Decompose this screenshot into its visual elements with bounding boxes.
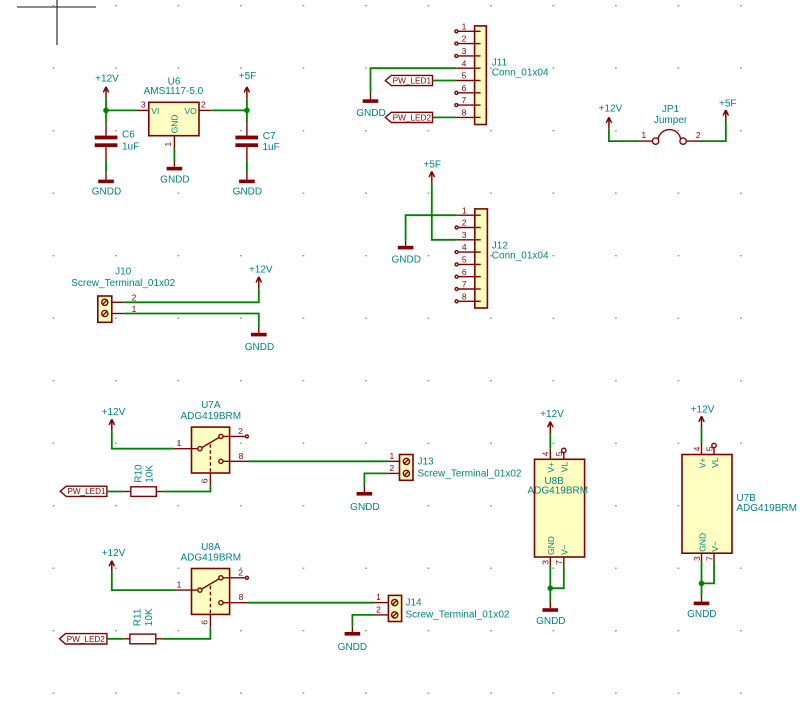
resistor R10 bbox=[123, 487, 162, 497]
svg-text:2: 2 bbox=[696, 130, 701, 140]
ground GNDD under U6 bbox=[160, 162, 189, 186]
ground GNDD under C6 bbox=[92, 173, 121, 198]
U7A value ADG419BRM bbox=[181, 411, 242, 422]
svg-text:+12V: +12V bbox=[599, 104, 623, 115]
svg-text:3: 3 bbox=[541, 560, 551, 565]
U8B pin name GND (rotated) bbox=[546, 536, 556, 555]
J12 pin 5 bbox=[455, 255, 481, 266]
wire U7B pin7 to junction bbox=[702, 561, 715, 583]
svg-text:GNDD: GNDD bbox=[233, 186, 262, 197]
svg-text:2: 2 bbox=[132, 293, 137, 303]
wire J11 pin4 to ground bbox=[371, 68, 457, 93]
svg-text:8: 8 bbox=[462, 108, 467, 118]
wire U7A pin8 to J13 bbox=[248, 460, 387, 462]
svg-text:3: 3 bbox=[462, 230, 467, 240]
svg-text:4: 4 bbox=[462, 242, 467, 252]
J11 pin 7 bbox=[455, 95, 481, 106]
J11 reference label bbox=[492, 57, 508, 68]
svg-text:8: 8 bbox=[239, 592, 244, 602]
U6 pin 3 bbox=[137, 100, 149, 111]
svg-text:1uF: 1uF bbox=[122, 141, 139, 152]
wire C6 to ground bbox=[105, 160, 107, 172]
svg-text:8: 8 bbox=[239, 451, 244, 461]
svg-text:2: 2 bbox=[462, 218, 467, 228]
JP1 pin number 2 bbox=[696, 130, 701, 140]
svg-text:GND: GND bbox=[170, 114, 180, 133]
svg-text:5: 5 bbox=[704, 446, 714, 451]
svg-text:V+: V+ bbox=[697, 458, 707, 469]
svg-text:U8A: U8A bbox=[201, 542, 221, 553]
U6 pin 1 bbox=[163, 136, 174, 148]
connector J11 body bbox=[475, 26, 487, 125]
U6 value AMS1117-5.0 bbox=[144, 86, 204, 97]
svg-text:1: 1 bbox=[163, 142, 173, 147]
U7A pin 8 bbox=[223, 451, 248, 462]
U7B pin 7 bbox=[704, 553, 714, 561]
C7 reference label bbox=[263, 131, 276, 142]
J11 pin 2 bbox=[455, 34, 481, 45]
J10 pin 2 bbox=[112, 293, 137, 303]
J10 reference label bbox=[115, 267, 132, 278]
resistor R11 bbox=[123, 634, 162, 644]
svg-text:GNDD: GNDD bbox=[687, 609, 716, 620]
JP1 value Jumper bbox=[654, 115, 688, 126]
svg-text:2: 2 bbox=[238, 567, 243, 577]
analog switch U8A body bbox=[192, 569, 230, 615]
svg-text:J13: J13 bbox=[418, 457, 435, 468]
wire U6 pin1 to ground bbox=[173, 148, 175, 162]
J14 pin 1 bbox=[374, 592, 388, 603]
power +5F (JP1 right) bbox=[719, 98, 737, 121]
svg-text:2: 2 bbox=[462, 34, 467, 44]
C6 value 1uF bbox=[122, 141, 139, 152]
global label PW_LED2 (R11) bbox=[60, 634, 107, 644]
svg-text:GNDD: GNDD bbox=[391, 255, 420, 266]
JP1 reference label bbox=[662, 104, 680, 115]
power +12V (U6 input rail) bbox=[95, 74, 119, 99]
wire PW_LED2 to J11 pin8 bbox=[433, 116, 457, 118]
svg-text:+12V: +12V bbox=[249, 264, 273, 275]
jumper JP1 bbox=[639, 130, 699, 145]
U7B pin 4 bbox=[692, 444, 702, 455]
svg-text:6: 6 bbox=[462, 83, 467, 93]
U8B value ADG419BRM bbox=[528, 486, 589, 497]
svg-text:5: 5 bbox=[462, 71, 467, 81]
wire +5F arrow to junction bbox=[246, 98, 248, 110]
J10 pin 1 bbox=[112, 304, 137, 314]
svg-text:1: 1 bbox=[177, 580, 182, 590]
J11 pin 1 bbox=[455, 21, 481, 32]
J12 reference label bbox=[492, 240, 509, 251]
wire J14 pin2 to ground bbox=[352, 615, 374, 626]
global label PW_LED1 (J11 pin5) bbox=[385, 75, 432, 85]
wire U8A pin8 to J14 bbox=[248, 602, 374, 604]
svg-text:4: 4 bbox=[462, 58, 467, 68]
power +12V (U7B) bbox=[691, 405, 715, 428]
power +5F (J12) bbox=[423, 159, 441, 183]
svg-text:V+: V+ bbox=[546, 462, 556, 473]
J13 value Screw_Terminal_01x02 bbox=[418, 469, 522, 480]
power +12V (U8B) bbox=[540, 409, 564, 433]
svg-text:ADG419BRM: ADG419BRM bbox=[736, 503, 797, 514]
wire J13 pin2 to ground bbox=[364, 473, 387, 485]
svg-text:U7A: U7A bbox=[201, 400, 221, 411]
svg-text:+12V: +12V bbox=[95, 74, 119, 85]
R10 value 10K (rotated) bbox=[145, 465, 156, 483]
wire U6 pin2 to +5F junction bbox=[211, 109, 247, 111]
C7 value 1uF bbox=[263, 142, 280, 153]
op-amp U6 body bbox=[149, 102, 199, 135]
svg-text:VL: VL bbox=[710, 457, 720, 468]
J12 pin 4 bbox=[455, 242, 481, 253]
J11 pin 3 bbox=[455, 46, 481, 57]
U8B pin name VL (rotated) bbox=[560, 462, 570, 473]
svg-text:GND: GND bbox=[697, 533, 707, 552]
U8A pin 2 bbox=[223, 567, 248, 579]
svg-text:GNDD: GNDD bbox=[350, 502, 379, 513]
J13 pin 1 bbox=[387, 451, 399, 461]
wire +12V to U7B pin4 bbox=[701, 428, 703, 444]
U7B reference label bbox=[736, 493, 756, 504]
U8B pin name V- (rotated) bbox=[560, 544, 570, 555]
U7B pin name GND (rotated) bbox=[697, 533, 707, 552]
svg-text:+5F: +5F bbox=[719, 98, 737, 109]
wire +12V to JP1 pin1 bbox=[609, 129, 639, 141]
svg-text:+12V: +12V bbox=[691, 405, 715, 416]
U8A switch contacts bbox=[198, 576, 223, 615]
wire junction to U6 pin 3 bbox=[106, 109, 137, 111]
junction node +12V rail bbox=[103, 108, 109, 114]
svg-text:1: 1 bbox=[390, 451, 395, 461]
svg-text:GNDD: GNDD bbox=[338, 642, 367, 653]
J12 value Conn_01x04 bbox=[492, 251, 549, 262]
svg-text:4: 4 bbox=[541, 451, 551, 456]
svg-text:2: 2 bbox=[201, 100, 206, 110]
J11 pin 4 bbox=[456, 58, 481, 68]
J12 pin 7 bbox=[455, 279, 481, 290]
svg-text:1uF: 1uF bbox=[263, 142, 280, 153]
svg-text:GNDD: GNDD bbox=[92, 186, 121, 197]
wire U7A pin6 to R10 bbox=[162, 486, 210, 492]
svg-text:GND: GND bbox=[546, 536, 556, 555]
junction node U8B ground bbox=[548, 585, 554, 591]
svg-text:GNDD: GNDD bbox=[536, 616, 565, 627]
svg-text:GNDD: GNDD bbox=[356, 108, 385, 119]
U8B pin 4 bbox=[541, 449, 551, 460]
C6 reference label bbox=[122, 130, 135, 141]
U7B pin name V+ (rotated) bbox=[697, 458, 707, 469]
R11 value 10K (rotated) bbox=[144, 608, 155, 626]
svg-text:Conn_01x04: Conn_01x04 bbox=[492, 68, 549, 79]
svg-text:ADG419BRM: ADG419BRM bbox=[181, 553, 242, 564]
J10 value Screw_Terminal_01x02 bbox=[71, 278, 175, 289]
U8B pin name V+ (rotated) bbox=[546, 462, 556, 473]
U6 pin name VO bbox=[185, 106, 198, 116]
junction node +5F rail bbox=[244, 108, 250, 114]
ground GNDD (U7B) bbox=[687, 595, 716, 620]
svg-text:PW_LED1: PW_LED1 bbox=[68, 486, 106, 496]
junction node U7B ground bbox=[699, 581, 705, 587]
svg-text:1: 1 bbox=[462, 205, 467, 215]
svg-text:JP1: JP1 bbox=[662, 104, 680, 115]
svg-text:Screw_Terminal_01x02: Screw_Terminal_01x02 bbox=[406, 609, 510, 620]
capacitor C6 bbox=[95, 123, 118, 160]
power +5F (U6 output rail) bbox=[239, 71, 257, 98]
svg-text:V−: V− bbox=[710, 541, 720, 552]
J14 pin 2 bbox=[374, 604, 388, 615]
ground GNDD under C7 bbox=[233, 173, 262, 198]
J12 pin 6 bbox=[455, 267, 481, 278]
U6 reference label bbox=[168, 76, 181, 87]
svg-text:Conn_01x04: Conn_01x04 bbox=[492, 251, 549, 262]
U7B pin 3 bbox=[692, 553, 702, 561]
J11 pin 8 bbox=[456, 108, 481, 118]
svg-text:3: 3 bbox=[462, 46, 467, 56]
svg-text:PW_LED2: PW_LED2 bbox=[393, 112, 432, 122]
svg-text:6: 6 bbox=[200, 478, 210, 483]
wire C7 to ground bbox=[246, 160, 248, 172]
wire +5F to J12 pin3 bbox=[432, 183, 457, 240]
J14 value Screw_Terminal_01x02 bbox=[406, 609, 510, 620]
svg-text:6: 6 bbox=[200, 620, 210, 625]
J11 pin 5 bbox=[456, 71, 481, 81]
U8B pin 5 bbox=[554, 448, 566, 459]
ground GNDD (U8B) bbox=[536, 602, 565, 627]
U6 pin 2 bbox=[199, 100, 211, 111]
U7A pin 1 bbox=[175, 438, 198, 449]
power +12V (U8A) bbox=[102, 548, 126, 572]
svg-text:J14: J14 bbox=[406, 598, 423, 609]
wire PW_LED1 to R10 bbox=[107, 491, 123, 493]
capacitor C7 bbox=[235, 123, 258, 160]
wire J10 pin1 to ground bbox=[124, 314, 259, 328]
svg-text:5: 5 bbox=[462, 255, 467, 265]
wire J12 pin1 to ground bbox=[406, 215, 457, 241]
svg-text:C6: C6 bbox=[122, 130, 135, 141]
svg-text:8: 8 bbox=[462, 291, 467, 301]
ground GNDD (J10) bbox=[245, 327, 274, 353]
svg-text:+12V: +12V bbox=[102, 548, 126, 559]
svg-text:7: 7 bbox=[704, 556, 714, 561]
svg-text:7: 7 bbox=[462, 279, 467, 289]
U7A switch contacts bbox=[198, 434, 223, 473]
wire junction down to C6 bbox=[105, 110, 107, 123]
wire +12V to U7A pin1 bbox=[112, 431, 175, 449]
wire +12V to U8A pin1 bbox=[112, 572, 175, 590]
svg-text:6: 6 bbox=[462, 267, 467, 277]
ground GNDD (J13) bbox=[350, 486, 379, 513]
svg-text:7: 7 bbox=[554, 560, 564, 565]
ground GNDD (J12) bbox=[391, 241, 420, 266]
analog switch power unit U7B body bbox=[682, 455, 732, 554]
U7B pin name V- (rotated) bbox=[710, 541, 720, 552]
svg-text:VO: VO bbox=[185, 106, 198, 116]
svg-text:1: 1 bbox=[376, 592, 381, 602]
svg-text:GNDD: GNDD bbox=[245, 342, 274, 353]
U8A pin 6 bbox=[200, 614, 211, 627]
U7B pin 5 bbox=[704, 443, 716, 454]
wire PW_LED1 to J11 pin5 bbox=[433, 80, 457, 82]
J14 reference label bbox=[406, 598, 423, 609]
J12 pin 8 bbox=[455, 291, 481, 302]
svg-text:Jumper: Jumper bbox=[654, 115, 688, 126]
ground GNDD (J11) bbox=[356, 93, 385, 119]
svg-text:PW_LED2: PW_LED2 bbox=[67, 634, 105, 644]
power +12V (J10) bbox=[249, 264, 273, 288]
svg-text:5: 5 bbox=[554, 451, 564, 456]
svg-text:1: 1 bbox=[641, 130, 646, 140]
screw terminal J13 body bbox=[400, 455, 414, 481]
svg-text:C7: C7 bbox=[263, 131, 276, 142]
svg-text:10K: 10K bbox=[145, 465, 156, 483]
svg-text:ADG419BRM: ADG419BRM bbox=[181, 411, 242, 422]
U8B pin 3 bbox=[541, 557, 551, 565]
svg-text:Screw_Terminal_01x02: Screw_Terminal_01x02 bbox=[71, 278, 175, 289]
U8B reference label bbox=[544, 476, 564, 487]
svg-text:1: 1 bbox=[132, 304, 137, 314]
wire +12V to U8B pin4 bbox=[549, 433, 551, 449]
svg-text:1: 1 bbox=[177, 438, 182, 448]
wire U8B pin7 to junction bbox=[550, 565, 564, 588]
U7B pin name VL (rotated) bbox=[710, 457, 720, 468]
J13 pin 2 bbox=[387, 463, 399, 473]
svg-text:2: 2 bbox=[238, 426, 243, 436]
U8A pin 1 bbox=[175, 580, 198, 591]
svg-text:+12V: +12V bbox=[102, 407, 126, 418]
svg-text:Screw_Terminal_01x02: Screw_Terminal_01x02 bbox=[418, 469, 522, 480]
U8A pin 8 bbox=[223, 592, 248, 603]
svg-text:4: 4 bbox=[692, 446, 702, 451]
power +12V (U7A) bbox=[102, 407, 126, 431]
wire U8B pin3 to ground bbox=[549, 565, 551, 602]
U6 pin name VI bbox=[151, 106, 159, 116]
svg-text:2: 2 bbox=[390, 463, 395, 473]
U7A reference label bbox=[201, 400, 221, 411]
ground GNDD (J14) bbox=[338, 626, 367, 653]
J11 value Conn_01x04 bbox=[492, 68, 549, 79]
svg-text:2: 2 bbox=[376, 604, 381, 614]
U7A pin 2 bbox=[223, 426, 248, 438]
svg-text:3: 3 bbox=[692, 556, 702, 561]
svg-text:+12V: +12V bbox=[540, 409, 564, 420]
J12 pin 3 bbox=[456, 230, 481, 240]
analog switch U7A body bbox=[192, 427, 230, 473]
svg-text:10K: 10K bbox=[144, 608, 155, 626]
J12 pin 1 bbox=[456, 205, 481, 215]
svg-text:V−: V− bbox=[560, 544, 570, 555]
wire junction down to C7 bbox=[246, 110, 248, 123]
svg-text:R10: R10 bbox=[134, 464, 145, 483]
R10 reference label (rotated) bbox=[134, 464, 145, 483]
U8A reference label bbox=[201, 542, 221, 553]
svg-text:J10: J10 bbox=[115, 267, 132, 278]
svg-text:7: 7 bbox=[462, 95, 467, 105]
svg-text:AMS1117-5.0: AMS1117-5.0 bbox=[144, 86, 204, 97]
wire PW_LED2 to R11 bbox=[107, 638, 123, 640]
svg-text:GNDD: GNDD bbox=[160, 175, 189, 186]
svg-text:1: 1 bbox=[462, 21, 467, 31]
J13 reference label bbox=[418, 457, 435, 468]
screw terminal J14 body bbox=[388, 595, 401, 621]
svg-text:ADG419BRM: ADG419BRM bbox=[528, 486, 589, 497]
wire U8A pin6 to R11 bbox=[162, 627, 210, 639]
U8A value ADG419BRM bbox=[181, 553, 242, 564]
svg-text:3: 3 bbox=[141, 100, 146, 110]
svg-text:PW_LED1: PW_LED1 bbox=[393, 75, 432, 85]
power +12V (JP1 left) bbox=[599, 104, 623, 129]
wire U7B pin3 to ground bbox=[701, 561, 703, 595]
J11 pin 6 bbox=[455, 83, 481, 94]
global label PW_LED1 (R10) bbox=[60, 486, 107, 496]
svg-text:+5F: +5F bbox=[423, 159, 441, 170]
JP1 pin number 1 bbox=[641, 130, 646, 140]
svg-text:R11: R11 bbox=[133, 608, 144, 626]
J12 pin 2 bbox=[455, 218, 481, 229]
wire J10 pin2 to +12V bbox=[124, 288, 259, 302]
U8B pin 7 bbox=[554, 557, 564, 565]
wire JP1 pin2 to +5F bbox=[700, 122, 726, 142]
sheet origin crosshair bbox=[17, 0, 96, 45]
global label PW_LED2 (J11 pin8) bbox=[385, 112, 432, 122]
screw terminal J10 body bbox=[98, 296, 112, 322]
connector J12 body bbox=[475, 209, 488, 308]
U7A pin 6 bbox=[200, 473, 211, 486]
svg-text:VL: VL bbox=[560, 462, 570, 473]
wire +12V arrow to junction bbox=[105, 98, 107, 110]
U6 pin name GND (rotated) bbox=[170, 114, 180, 133]
svg-text:VI: VI bbox=[151, 106, 159, 116]
analog switch power unit U8B body bbox=[535, 459, 585, 557]
svg-text:+5F: +5F bbox=[239, 71, 257, 82]
U7B value ADG419BRM bbox=[736, 503, 797, 514]
R11 reference label (rotated) bbox=[133, 608, 144, 626]
